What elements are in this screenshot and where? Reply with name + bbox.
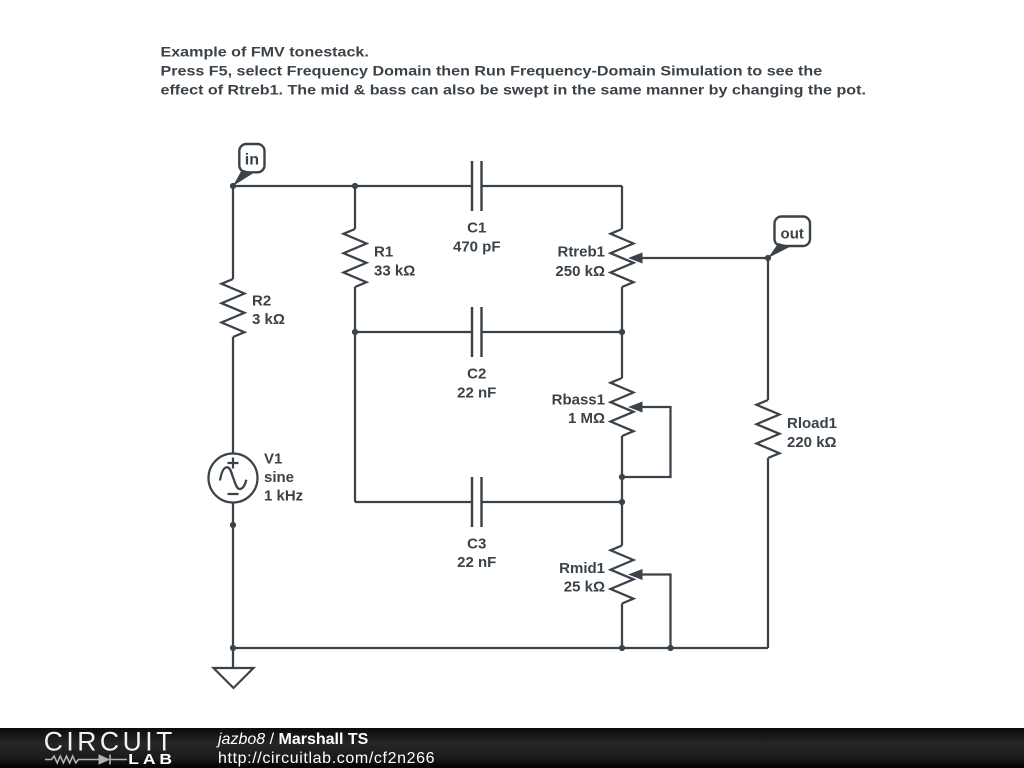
svg-text:Press F5, select Frequency Dom: Press F5, select Frequency Domain then R…: [161, 64, 823, 80]
potentiometer Rmid1: [611, 546, 643, 604]
junction Rmid1 wiper node: [667, 645, 673, 651]
junction ground node: [230, 645, 236, 651]
svg-text:R1: R1: [374, 244, 393, 261]
junction R1 / C2 node: [352, 329, 358, 335]
svg-text:Rmid1: Rmid1: [559, 560, 605, 577]
svg-text:C3: C3: [467, 536, 486, 553]
svg-text:22 nF: 22 nF: [457, 385, 496, 402]
svg-text:V1: V1: [264, 451, 282, 468]
resistor R1: [344, 229, 367, 287]
svg-text:LAB: LAB: [128, 752, 176, 768]
svg-text:Rbass1: Rbass1: [552, 392, 605, 409]
wire in node to R2 top: [232, 186, 234, 279]
wire Rmid1 bottom lead: [621, 604, 623, 649]
wire Rmid1 wiper jumper: [641, 575, 671, 649]
resistor Rload1: [757, 400, 780, 458]
logo resistor-diode squiggle: [45, 755, 127, 765]
junction in node: [230, 183, 236, 189]
junction R1 top: [352, 183, 358, 189]
svg-text:25 kΩ: 25 kΩ: [564, 579, 605, 596]
svg-text:out: out: [781, 226, 804, 243]
junction out node: [765, 255, 771, 261]
svg-text:220 kΩ: 220 kΩ: [787, 434, 837, 451]
voltage source V1: [209, 454, 258, 503]
wire Rload1 bottom lead: [767, 458, 769, 648]
wire Rtreb1 bottom to Rbass1 top: [621, 287, 623, 378]
capacitor C1: [472, 161, 482, 211]
wire bottom rail: [233, 647, 768, 649]
wire right rail top lead: [621, 186, 623, 229]
svg-text:3 kΩ: 3 kΩ: [252, 311, 285, 328]
wire mid rail right of C2: [482, 331, 623, 333]
svg-text:1 kHz: 1 kHz: [264, 488, 303, 505]
wire Rbass1 bottom to Rmid1 top: [621, 436, 623, 546]
resistor R2: [222, 279, 245, 337]
wire top rail left of C1: [233, 185, 472, 187]
junction Rbass1 wiper return: [619, 474, 625, 480]
wire R2 bottom to V1 top: [232, 337, 234, 454]
footer credits text: [217, 727, 219, 729]
wire V1 bottom to bottom rail: [232, 503, 234, 649]
junction C3 / Rmid1 node: [619, 499, 625, 505]
potentiometer Rbass1: [611, 378, 643, 436]
wire out node to Rload1 top: [767, 258, 769, 400]
potentiometer Rtreb1: [611, 229, 643, 287]
ground: [214, 668, 254, 688]
capacitor C2: [472, 307, 482, 357]
wire Rtreb1 wiper to out node: [641, 257, 768, 259]
wire bottom rail to ground: [232, 648, 234, 668]
header note text: [161, 44, 866, 98]
junction Rmid1 bottom node: [619, 645, 625, 651]
svg-text:33 kΩ: 33 kΩ: [374, 263, 415, 280]
wire C3 row left of C3: [355, 501, 472, 503]
wire top rail right of C1: [482, 185, 623, 187]
svg-text:in: in: [245, 152, 259, 169]
footer bar: [0, 728, 1024, 768]
svg-text:effect of Rtreb1. The mid & ba: effect of Rtreb1. The mid & bass can als…: [161, 83, 866, 99]
svg-text:R2: R2: [252, 293, 271, 310]
wire R1 bottom to C3 row: [354, 287, 356, 502]
svg-text:1 MΩ: 1 MΩ: [568, 410, 605, 427]
svg-text:C2: C2: [467, 366, 486, 383]
node flag out: [768, 217, 810, 259]
svg-text:Example of FMV tonestack.: Example of FMV tonestack.: [161, 44, 369, 60]
wire R1 top lead: [354, 186, 356, 229]
junction V1 negative node: [230, 522, 236, 528]
wire C3 row right of C3: [482, 501, 623, 503]
svg-text:Rload1: Rload1: [787, 415, 837, 432]
svg-text:22 nF: 22 nF: [457, 554, 496, 571]
svg-text:Rtreb1: Rtreb1: [557, 244, 605, 261]
svg-text:470 pF: 470 pF: [453, 239, 501, 256]
CircuitLab logo: [40, 727, 190, 768]
svg-text:sine: sine: [264, 469, 294, 486]
junction Rtreb1 / Rbass1 node: [619, 329, 625, 335]
svg-text:C1: C1: [467, 220, 486, 237]
wire mid rail left of C2: [355, 331, 472, 333]
wire Rbass1 wiper jumper: [622, 407, 671, 477]
node flag in: [233, 144, 265, 186]
capacitor C3: [472, 477, 482, 527]
svg-text:250 kΩ: 250 kΩ: [555, 263, 605, 280]
